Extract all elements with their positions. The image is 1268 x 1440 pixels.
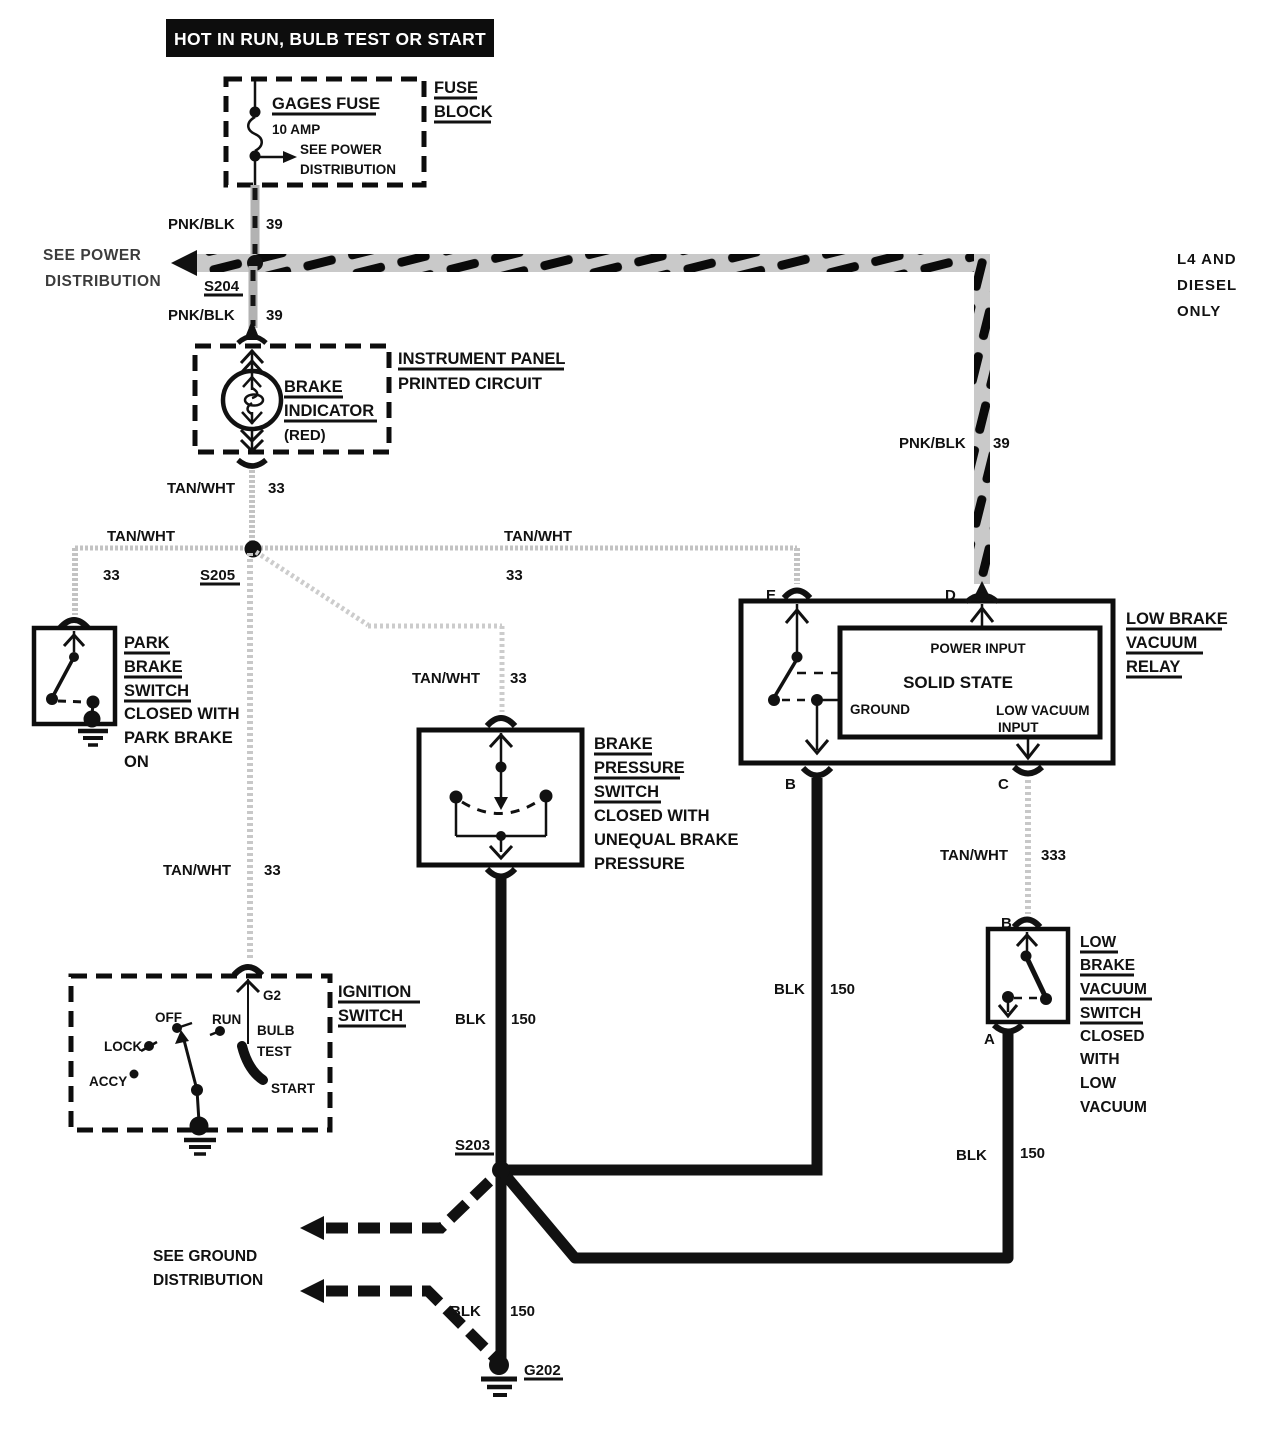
ignition switch box: [71, 976, 330, 1130]
svg-text:TAN/WHT: TAN/WHT: [504, 528, 572, 545]
svg-text:BLOCK: BLOCK: [434, 103, 493, 121]
svg-text:WITH: WITH: [1080, 1051, 1120, 1068]
svg-text:150: 150: [830, 981, 855, 998]
ignition lever: [184, 1040, 197, 1090]
svg-text:PARK: PARK: [124, 634, 170, 652]
svg-text:PNK/BLK: PNK/BLK: [168, 307, 235, 324]
wire TAN/WHT 333 relay C to vacuum switch: [1025, 780, 1031, 914]
svg-text:TAN/WHT: TAN/WHT: [107, 528, 175, 545]
relay terminal B: [803, 768, 831, 776]
svg-text:SWITCH: SWITCH: [124, 682, 189, 700]
svg-text:SEE POWER: SEE POWER: [300, 142, 382, 157]
svg-text:BRAKE: BRAKE: [284, 378, 343, 396]
park brake switch box: [34, 628, 115, 724]
wire hatched L4/diesel horizontal run: [197, 254, 989, 272]
svg-text:INSTRUMENT PANEL: INSTRUMENT PANEL: [398, 350, 565, 368]
svg-text:33: 33: [103, 567, 120, 584]
svg-text:ON: ON: [124, 753, 149, 771]
svg-text:S203: S203: [455, 1137, 490, 1154]
svg-text:A: A: [984, 1031, 995, 1048]
wire TAN/WHT 33 S205 to brake pressure switch: [256, 552, 368, 625]
wire TAN/WHT 33 horizontal bus: [75, 546, 797, 551]
svg-text:BULB: BULB: [257, 1023, 295, 1038]
park brake switch connector: [60, 620, 88, 628]
bulb lower chevrons: [251, 429, 254, 450]
low brake vacuum relay outer box: [741, 601, 1113, 763]
svg-text:CLOSED WITH: CLOSED WITH: [124, 705, 240, 723]
ignition ground: [190, 1117, 209, 1136]
svg-text:SWITCH: SWITCH: [594, 783, 659, 801]
ignition switch connector G2: [234, 967, 262, 975]
wire TAN/WHT to relay terminal E: [794, 548, 800, 584]
svg-text:10 AMP: 10 AMP: [272, 122, 320, 137]
svg-text:SWITCH: SWITCH: [338, 1007, 403, 1025]
svg-text:BRAKE: BRAKE: [1080, 957, 1135, 974]
svg-text:SEE POWER: SEE POWER: [43, 247, 141, 264]
ignition switch rotor and contacts: [247, 979, 249, 1044]
svg-text:DISTRIBUTION: DISTRIBUTION: [153, 1272, 263, 1289]
svg-text:E: E: [766, 587, 776, 604]
see ground distribution arrow upper: [300, 1216, 324, 1240]
svg-text:START: START: [271, 1081, 316, 1096]
svg-text:CLOSED WITH: CLOSED WITH: [594, 807, 710, 825]
junction S204: [247, 255, 263, 271]
low brake vacuum switch box: [988, 929, 1068, 1022]
svg-text:BRAKE: BRAKE: [124, 658, 183, 676]
svg-text:IGNITION: IGNITION: [338, 983, 411, 1001]
connector spade into instrument panel: [244, 320, 260, 340]
svg-text:INDICATOR: INDICATOR: [284, 402, 374, 420]
svg-text:SWITCH: SWITCH: [1080, 1005, 1141, 1022]
svg-text:ONLY: ONLY: [1177, 303, 1221, 320]
svg-text:33: 33: [506, 567, 523, 584]
svg-text:G2: G2: [263, 988, 281, 1003]
svg-text:UNEQUAL BRAKE: UNEQUAL BRAKE: [594, 831, 739, 849]
svg-text:(RED): (RED): [284, 427, 326, 444]
svg-text:BLK: BLK: [956, 1147, 987, 1164]
svg-text:39: 39: [266, 216, 283, 233]
svg-text:HOT IN RUN, BULB TEST OR START: HOT IN RUN, BULB TEST OR START: [174, 29, 486, 49]
svg-text:RELAY: RELAY: [1126, 658, 1180, 676]
svg-text:RUN: RUN: [212, 1012, 241, 1027]
svg-text:LOCK: LOCK: [104, 1039, 142, 1054]
svg-text:SOLID STATE: SOLID STATE: [903, 673, 1013, 692]
park brake switch contacts: [73, 631, 76, 652]
svg-text:VACUUM: VACUUM: [1080, 1099, 1147, 1116]
svg-text:BRAKE: BRAKE: [594, 735, 653, 753]
svg-text:LOW BRAKE: LOW BRAKE: [1126, 610, 1228, 628]
wire BLK 150 vacuum switch A to S203: [501, 1032, 1008, 1258]
ground G202: [489, 1355, 509, 1375]
svg-text:DIESEL: DIESEL: [1177, 277, 1237, 294]
svg-text:33: 33: [510, 670, 527, 687]
svg-text:POWER INPUT: POWER INPUT: [930, 641, 1026, 656]
brake pressure switch box: [419, 730, 582, 865]
svg-text:FUSE: FUSE: [434, 79, 478, 97]
svg-text:GAGES FUSE: GAGES FUSE: [272, 95, 380, 113]
svg-text:S204: S204: [204, 278, 240, 295]
vacuum switch contacts: [1026, 932, 1029, 952]
instrument panel printed circuit box: [195, 346, 389, 452]
svg-text:PRESSURE: PRESSURE: [594, 759, 685, 777]
brake pressure switch contacts: [500, 733, 503, 800]
fuse GAGES FUSE 10 AMP: [254, 81, 257, 107]
svg-text:PRESSURE: PRESSURE: [594, 855, 685, 873]
fuse block box: [226, 79, 424, 185]
svg-text:PNK/BLK: PNK/BLK: [899, 435, 966, 452]
svg-text:C: C: [998, 776, 1009, 793]
vacuum switch terminal A: [994, 1025, 1022, 1032]
svg-text:150: 150: [511, 1011, 536, 1028]
svg-text:TAN/WHT: TAN/WHT: [167, 480, 235, 497]
svg-text:G202: G202: [524, 1362, 561, 1379]
see power distribution arrow left: [171, 250, 197, 276]
svg-text:VACUUM: VACUUM: [1080, 981, 1147, 998]
svg-text:33: 33: [268, 480, 285, 497]
wire PNK/BLK 39 fuse to S204: [251, 185, 260, 260]
relay terminal C: [1027, 739, 1030, 757]
see power distribution tap arrow: [255, 156, 286, 159]
svg-text:39: 39: [266, 307, 283, 324]
svg-text:TAN/WHT: TAN/WHT: [940, 847, 1008, 864]
svg-text:TAN/WHT: TAN/WHT: [412, 670, 480, 687]
svg-text:PARK BRAKE: PARK BRAKE: [124, 729, 233, 747]
svg-text:GROUND: GROUND: [850, 702, 910, 717]
svg-text:150: 150: [1020, 1145, 1045, 1162]
wire to park brake switch: [72, 548, 78, 615]
svg-text:VACUUM: VACUUM: [1126, 634, 1197, 652]
wire BLK 150 relay B to S203: [501, 778, 817, 1170]
connector below brake pressure switch: [487, 869, 515, 877]
svg-text:150: 150: [510, 1303, 535, 1320]
power source banner HOT IN RUN: [166, 19, 494, 57]
solid state inner box: [840, 628, 1100, 737]
svg-text:BLK: BLK: [774, 981, 805, 998]
svg-text:DISTRIBUTION: DISTRIBUTION: [300, 162, 396, 177]
svg-text:BLK: BLK: [450, 1303, 481, 1320]
park brake ground: [84, 711, 101, 728]
svg-text:LOW: LOW: [1080, 934, 1117, 951]
svg-text:B: B: [785, 776, 796, 793]
svg-text:LOW: LOW: [1080, 1075, 1117, 1092]
wire TAN/WHT 33 panel to S205: [249, 470, 255, 545]
connector below instrument panel: [238, 460, 266, 466]
wire TAN/WHT 33 S205 to ignition switch: [247, 553, 253, 960]
svg-text:L4 AND: L4 AND: [1177, 251, 1237, 268]
see ground distribution arrow lower: [300, 1279, 324, 1303]
svg-text:PRINTED CIRCUIT: PRINTED CIRCUIT: [398, 375, 542, 393]
svg-text:D: D: [945, 587, 956, 604]
junction S205: [245, 541, 262, 558]
svg-text:INPUT: INPUT: [998, 720, 1039, 735]
svg-text:OFF: OFF: [155, 1010, 182, 1025]
wire BLK 150 S203 to G202: [496, 1170, 507, 1360]
svg-text:333: 333: [1041, 847, 1066, 864]
svg-text:39: 39: [993, 435, 1010, 452]
svg-text:TEST: TEST: [257, 1044, 292, 1059]
svg-text:BLK: BLK: [455, 1011, 486, 1028]
wire BLK 150 pressure switch to S203: [496, 874, 507, 1170]
svg-text:ACCY: ACCY: [89, 1074, 127, 1089]
svg-text:DISTRIBUTION: DISTRIBUTION: [45, 273, 161, 290]
svg-text:TAN/WHT: TAN/WHT: [163, 862, 231, 879]
svg-text:33: 33: [264, 862, 281, 879]
relay internal switch: [792, 652, 803, 663]
svg-text:SEE GROUND: SEE GROUND: [153, 1248, 257, 1265]
svg-text:CLOSED: CLOSED: [1080, 1028, 1145, 1045]
brake pressure switch connector: [487, 718, 515, 726]
svg-text:LOW VACUUM: LOW VACUUM: [996, 703, 1090, 718]
wire hatched L4/diesel vertical run: [974, 254, 990, 584]
svg-text:S205: S205: [200, 567, 235, 584]
wire PNK/BLK 39 S204 to instrument panel: [249, 266, 258, 328]
junction S203: [492, 1161, 510, 1179]
svg-text:PNK/BLK: PNK/BLK: [168, 216, 235, 233]
brake indicator bulb (red): [251, 350, 254, 372]
